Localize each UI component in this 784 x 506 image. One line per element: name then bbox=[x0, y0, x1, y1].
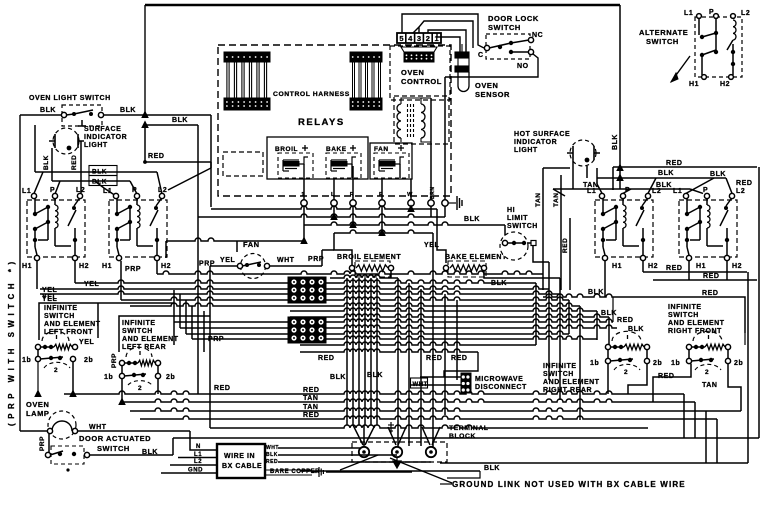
svg-text:BAKE ELEMENT: BAKE ELEMENT bbox=[445, 254, 507, 261]
lamp hot surface indicator bbox=[570, 140, 596, 166]
svg-text:L2: L2 bbox=[652, 188, 661, 195]
svg-text:CONTROL: CONTROL bbox=[401, 77, 442, 86]
svg-text:RED: RED bbox=[666, 160, 682, 167]
wire BX L1 feed bbox=[178, 457, 217, 459]
wire BLK second bbox=[52, 180, 130, 182]
svg-text:PRP: PRP bbox=[39, 436, 46, 451]
svg-text:MICROWAVE: MICROWAVE bbox=[475, 376, 523, 383]
wire relay bus y217 bbox=[198, 214, 445, 217]
wire bundle A verticals bbox=[346, 278, 348, 425]
wire feed from BLK line to L1 bbox=[34, 125, 36, 172]
transformer T1 secondary coil bbox=[421, 104, 425, 138]
wire bus line y428 bbox=[210, 425, 648, 428]
terminal H1 group3 bbox=[602, 255, 607, 260]
svg-text:AND ELEMENT: AND ELEMENT bbox=[122, 336, 179, 343]
wire BLK vertical from lamp bbox=[51, 148, 53, 181]
svg-text:L2: L2 bbox=[736, 188, 745, 195]
box relay sub dashed empty bbox=[223, 152, 263, 176]
wire bare copper continuation bbox=[326, 471, 412, 473]
svg-text:YEL: YEL bbox=[42, 287, 57, 294]
svg-text:TAN: TAN bbox=[553, 192, 560, 207]
svg-text:BLK: BLK bbox=[658, 170, 674, 177]
svg-text:INDICATOR: INDICATOR bbox=[514, 139, 557, 146]
svg-text:L2: L2 bbox=[194, 459, 202, 465]
svg-text:H1: H1 bbox=[612, 263, 622, 270]
svg-text:SWITCH: SWITCH bbox=[646, 37, 679, 46]
wire H2 group1 drop bbox=[74, 261, 76, 283]
svg-text:2b: 2b bbox=[84, 357, 93, 364]
svg-text:2b: 2b bbox=[166, 374, 175, 381]
switch hi limit bbox=[500, 232, 528, 260]
wire bend down x211 bbox=[210, 115, 212, 207]
switch oven selector left 1 bbox=[27, 200, 85, 257]
element infinite right rear bbox=[612, 331, 641, 341]
svg-text:BAKE: BAKE bbox=[326, 146, 347, 153]
box wire in BX cable bbox=[217, 444, 265, 478]
svg-text:BROIL ELEMENT: BROIL ELEMENT bbox=[337, 254, 401, 261]
wire BLK right bbox=[597, 177, 726, 179]
svg-text:DOOR ACTUATED: DOOR ACTUATED bbox=[79, 434, 151, 443]
svg-text:AND ELEMENT: AND ELEMENT bbox=[543, 379, 600, 386]
connector control harness right bbox=[350, 52, 382, 62]
wire H2 group3 to right edge bbox=[642, 261, 644, 272]
svg-text:DOOR LOCK: DOOR LOCK bbox=[488, 14, 539, 23]
svg-text:RED: RED bbox=[303, 387, 319, 394]
wire BLK bottom bbox=[300, 470, 480, 472]
wire bus line 12 bbox=[192, 336, 597, 339]
transformer T1 primary coil bbox=[397, 104, 401, 138]
wire relay drops bbox=[303, 178, 305, 200]
wire diagonals into right switches bbox=[617, 165, 623, 171]
svg-text:LAMP: LAMP bbox=[26, 409, 49, 418]
svg-text:BRN: BRN bbox=[430, 187, 436, 199]
wire lamp to BX N bbox=[190, 431, 217, 450]
wire right front feed bbox=[612, 297, 614, 322]
wire relay bus y225 BLK bbox=[304, 222, 505, 225]
svg-text:2: 2 bbox=[138, 385, 142, 392]
svg-text:INFINITE: INFINITE bbox=[668, 304, 702, 311]
wire bus line 11 PRP bbox=[186, 331, 569, 334]
ground symbol BX bbox=[312, 471, 318, 473]
ground symbol GRD at terminal bbox=[390, 422, 392, 433]
svg-text:TERMINAL: TERMINAL bbox=[449, 425, 489, 432]
svg-text:PRP: PRP bbox=[111, 353, 118, 368]
connector control harness left bbox=[224, 52, 270, 62]
svg-text:H1: H1 bbox=[696, 263, 706, 270]
svg-text:RED: RED bbox=[617, 317, 633, 324]
box infinite left front bbox=[39, 303, 174, 340]
wire PRP drop bbox=[48, 434, 50, 453]
svg-text:1b: 1b bbox=[22, 357, 31, 364]
wires from 5-pin connector bbox=[402, 14, 484, 48]
svg-text:5: 5 bbox=[399, 34, 403, 43]
svg-text:FAN: FAN bbox=[374, 146, 389, 153]
svg-text:BLK: BLK bbox=[367, 372, 383, 379]
svg-text:RED: RED bbox=[71, 155, 78, 170]
wire yel to fan bbox=[210, 265, 237, 267]
wire bake feed YEL bbox=[437, 209, 446, 263]
svg-text:YEL: YEL bbox=[79, 339, 94, 346]
svg-text:H2: H2 bbox=[720, 81, 730, 88]
wire oven lamp bottom bbox=[20, 430, 48, 432]
switch oven selector right 1 bbox=[595, 200, 653, 257]
switch oven selector left 2 bbox=[109, 200, 167, 257]
wire bus line 1 bbox=[330, 275, 398, 278]
wire bundle D verticals bbox=[535, 283, 537, 345]
wire broil element out bbox=[390, 271, 392, 278]
box infinite right front bbox=[617, 297, 745, 333]
pointer arrow alternate switch bbox=[671, 56, 690, 82]
switch oven selector right 2 bbox=[679, 200, 737, 257]
element infinite left rear bbox=[126, 347, 152, 357]
svg-text:FAN: FAN bbox=[243, 240, 260, 249]
wire H1 group2 drop bbox=[120, 261, 122, 300]
wire bundle B verticals bbox=[397, 278, 399, 437]
wire RED vertical right bbox=[569, 218, 571, 290]
svg-text:LEFT REAR: LEFT REAR bbox=[122, 344, 166, 351]
svg-text:TAN: TAN bbox=[303, 404, 319, 411]
wire H1 group3 drop bbox=[604, 261, 606, 297]
svg-text:SWITCH: SWITCH bbox=[488, 23, 521, 32]
svg-text:SWITCH: SWITCH bbox=[44, 313, 75, 320]
svg-text:2: 2 bbox=[624, 369, 628, 376]
wire bundle C verticals bbox=[432, 233, 434, 447]
svg-text:BLK: BLK bbox=[588, 289, 604, 296]
wire wht from fan bbox=[270, 265, 322, 267]
wire J2 leads bbox=[300, 349, 478, 352]
wire microwave leads bbox=[420, 376, 461, 378]
svg-text:DISCONNECT: DISCONNECT bbox=[475, 384, 527, 391]
transformer leads bbox=[401, 98, 431, 142]
svg-text:L1: L1 bbox=[684, 10, 693, 17]
svg-text:P: P bbox=[625, 187, 630, 194]
terminal H1 group1 bbox=[34, 255, 39, 260]
svg-text:BLK: BLK bbox=[612, 134, 619, 150]
wire RED vertical from lamp bbox=[80, 141, 82, 193]
svg-text:PRP: PRP bbox=[308, 256, 324, 263]
wire bus line 10 bbox=[180, 325, 617, 328]
wire left front drops bbox=[37, 350, 39, 357]
relay K3 fan bbox=[370, 143, 412, 179]
wire bundle E verticals bbox=[596, 311, 598, 340]
svg-text:LIGHT: LIGHT bbox=[84, 142, 108, 149]
svg-text:RED: RED bbox=[266, 459, 278, 465]
wire lower diagonals terminal block bbox=[353, 425, 363, 445]
svg-text:WIRE IN: WIRE IN bbox=[224, 453, 255, 460]
wire BLK right of switch bbox=[104, 114, 212, 116]
wire BLK left of switch bbox=[20, 114, 62, 116]
svg-text:RIGHT REAR: RIGHT REAR bbox=[543, 387, 592, 394]
wire hi limit drop bbox=[533, 246, 549, 262]
svg-text:LIMIT: LIMIT bbox=[507, 215, 528, 222]
switch S1 oven light bbox=[62, 105, 102, 126]
wire bus line 5 bbox=[121, 297, 569, 300]
wire BLK riser to y438 line bbox=[172, 438, 174, 455]
svg-text:BLK: BLK bbox=[628, 326, 644, 333]
wire lower verticals to terminal block bbox=[363, 425, 365, 447]
svg-text:3: 3 bbox=[417, 34, 421, 43]
wire right rear drops bbox=[608, 350, 647, 394]
wire right edge vertical 759 bbox=[758, 167, 760, 438]
wire BX L2 feed bbox=[170, 464, 217, 466]
svg-text:RED: RED bbox=[426, 355, 442, 362]
wire BLK y297 right mid bbox=[543, 294, 617, 297]
element infinite left front bbox=[42, 331, 69, 341]
wire left drop from top border bbox=[144, 5, 146, 115]
svg-text:BLK: BLK bbox=[92, 169, 107, 176]
node triangles lower bus bbox=[35, 391, 41, 397]
wire broil feed PRP bbox=[334, 233, 352, 265]
wire hot surface drop bbox=[586, 166, 588, 178]
svg-text:BROIL: BROIL bbox=[275, 146, 298, 153]
svg-text:RED: RED bbox=[214, 385, 230, 392]
wire bus line 3 YEL bbox=[40, 286, 549, 289]
wire right front drops bbox=[689, 350, 728, 358]
svg-text:H2: H2 bbox=[161, 263, 171, 270]
svg-text:H1: H1 bbox=[689, 81, 699, 88]
sensor RTD oven sensor bbox=[458, 72, 469, 92]
wire PRP from H2 group2 bbox=[156, 261, 158, 274]
svg-text:RIGHT FRONT: RIGHT FRONT bbox=[668, 328, 722, 335]
wire H2 group4 to right edge bbox=[726, 261, 728, 280]
transformer core bbox=[407, 104, 409, 138]
wire RED top right bbox=[613, 166, 757, 168]
connector block J2 bbox=[288, 317, 326, 343]
svg-text:2b: 2b bbox=[734, 360, 743, 367]
svg-text:RED: RED bbox=[148, 153, 164, 160]
wire H1 group1 drop bbox=[36, 261, 38, 289]
svg-text:SURFACE: SURFACE bbox=[84, 126, 121, 133]
svg-text:WHT: WHT bbox=[89, 424, 107, 431]
wire WHT from lamp bbox=[78, 430, 191, 432]
wire relay output stubs bbox=[303, 206, 305, 241]
svg-text:L1: L1 bbox=[194, 452, 202, 458]
svg-text:RED: RED bbox=[702, 290, 718, 297]
wire BLK lower run bbox=[145, 124, 198, 126]
svg-text:2b: 2b bbox=[653, 360, 662, 367]
svg-text:2: 2 bbox=[705, 369, 709, 376]
box infinite left rear bbox=[119, 316, 210, 352]
svg-text:RED: RED bbox=[562, 238, 569, 253]
wire lower bus TAN 2 bbox=[130, 408, 741, 411]
terminal H1 group4 bbox=[686, 255, 691, 260]
wire red jumper bracket bbox=[444, 352, 478, 377]
wire relay bus y233 bbox=[334, 230, 433, 233]
connector oven sensor upper bbox=[455, 52, 469, 58]
svg-text:BLK: BLK bbox=[40, 107, 56, 114]
svg-text:2: 2 bbox=[426, 34, 430, 43]
wire bus line 13 BLK bbox=[300, 342, 536, 345]
svg-text:TAN: TAN bbox=[535, 192, 542, 207]
wire ground pointer bbox=[390, 458, 452, 483]
wire H1 group4 drop bbox=[688, 261, 690, 280]
wire bundle F verticals left bbox=[173, 290, 175, 345]
svg-text:RED: RED bbox=[303, 412, 319, 419]
svg-text:RED: RED bbox=[318, 355, 334, 362]
svg-text:INDICATOR: INDICATOR bbox=[84, 134, 127, 141]
svg-text:HOT SURFACE: HOT SURFACE bbox=[514, 131, 570, 138]
svg-text:BLK: BLK bbox=[172, 117, 188, 124]
svg-text:NC: NC bbox=[532, 32, 543, 39]
svg-text:(PRP WITH SWITCH *): (PRP WITH SWITCH *) bbox=[7, 257, 16, 426]
wire lower bus TAN bbox=[122, 399, 695, 402]
wire left rear drops bbox=[121, 366, 123, 374]
svg-text:L1: L1 bbox=[22, 188, 31, 195]
switch door lock bbox=[486, 34, 530, 59]
terminal H2 group4 bbox=[724, 255, 729, 260]
svg-text:LIGHT: LIGHT bbox=[514, 147, 538, 154]
wire lower bus RED 2 bbox=[140, 416, 717, 419]
lamp oven bbox=[48, 411, 76, 439]
wire bottom y463 bbox=[440, 462, 748, 464]
wire relay bus y209 bbox=[211, 206, 437, 209]
wire relay bus y241 bbox=[166, 238, 304, 241]
switch door actuated bbox=[51, 446, 84, 464]
wire door lock to transformer bbox=[445, 54, 538, 77]
svg-text:INFINITE: INFINITE bbox=[122, 320, 156, 327]
svg-text:AND ELEMENT: AND ELEMENT bbox=[668, 320, 725, 327]
svg-text:SWITCH: SWITCH bbox=[97, 444, 130, 453]
svg-text:RED: RED bbox=[451, 355, 467, 362]
svg-text:ALTERNATE: ALTERNATE bbox=[639, 28, 688, 37]
svg-text:1b: 1b bbox=[671, 360, 680, 367]
svg-text:H2: H2 bbox=[648, 263, 658, 270]
wire BLK to switch group bbox=[35, 171, 157, 173]
node junction at x145 y115 bbox=[142, 112, 148, 118]
svg-text:SWITCH: SWITCH bbox=[122, 328, 153, 335]
wire bend down x198 bbox=[197, 125, 199, 217]
svg-text:BLK: BLK bbox=[484, 465, 500, 472]
wire transformer drops bbox=[430, 98, 432, 200]
terminals relay outputs bbox=[301, 200, 307, 206]
svg-text:INFINITE: INFINITE bbox=[44, 305, 78, 312]
wire H2 group1 to bus bbox=[75, 280, 330, 283]
connector oven sensor lower bbox=[455, 66, 469, 72]
wire diagonals into left switches bbox=[157, 172, 162, 194]
ground arrow terminal bbox=[393, 458, 401, 469]
relay broil bake container bbox=[267, 137, 368, 179]
wire BLK TAN right bbox=[553, 188, 690, 190]
connector microwave disconnect bbox=[461, 373, 471, 393]
wire bus line 4 YEL bbox=[40, 291, 560, 294]
svg-text:YEL: YEL bbox=[42, 296, 57, 303]
wire bus line 6 PRP bbox=[130, 303, 580, 306]
svg-text:OVEN: OVEN bbox=[401, 68, 424, 77]
wire top border bbox=[145, 4, 620, 6]
svg-text:GND: GND bbox=[188, 468, 203, 474]
svg-text:OVEN: OVEN bbox=[475, 81, 498, 90]
svg-text:LEFT FRONT: LEFT FRONT bbox=[44, 329, 93, 336]
svg-text:OVEN: OVEN bbox=[26, 400, 49, 409]
wire right drop from top border (BLK) bbox=[619, 5, 621, 189]
wire bake element out BLK bbox=[484, 271, 560, 278]
element bake bbox=[448, 261, 486, 277]
svg-text:H1: H1 bbox=[102, 263, 112, 270]
svg-text:INFINITE: INFINITE bbox=[543, 363, 577, 370]
svg-text:2: 2 bbox=[54, 367, 58, 374]
wire left border bbox=[19, 115, 21, 431]
box oven control dashed bbox=[390, 46, 450, 100]
wire bus line 8 bbox=[290, 314, 609, 317]
svg-text:CONTROL HARNESS: CONTROL HARNESS bbox=[273, 91, 350, 98]
svg-text:BLK: BLK bbox=[710, 171, 726, 178]
svg-text:AND ELEMENT: AND ELEMENT bbox=[44, 321, 101, 328]
wire bus line 7 bbox=[290, 308, 597, 311]
terminal H2 group2 bbox=[154, 255, 159, 260]
wire bus line 9 bbox=[174, 319, 613, 322]
svg-text:1b: 1b bbox=[104, 374, 113, 381]
svg-text:WHT: WHT bbox=[266, 445, 279, 451]
wire yel fan feed bbox=[236, 241, 238, 252]
svg-text:H1: H1 bbox=[22, 263, 32, 270]
svg-text:OVEN LIGHT SWITCH: OVEN LIGHT SWITCH bbox=[29, 95, 111, 102]
svg-text:BLK: BLK bbox=[120, 107, 136, 114]
svg-text:YEL: YEL bbox=[220, 257, 235, 264]
terminal block TB1 bbox=[352, 442, 447, 462]
connector block J1 bbox=[288, 277, 326, 303]
svg-text:GROUND LINK NOT USED WITH BX C: GROUND LINK NOT USED WITH BX CABLE WIRE bbox=[452, 480, 686, 489]
svg-text:L1: L1 bbox=[103, 188, 112, 195]
svg-text:BX CABLE: BX CABLE bbox=[222, 463, 262, 470]
svg-text:RED: RED bbox=[666, 265, 682, 272]
svg-text:W: W bbox=[407, 192, 413, 198]
label WHT boxed bbox=[411, 378, 428, 388]
svg-text:SWITCH: SWITCH bbox=[668, 312, 699, 319]
wire BX gnd feed bbox=[161, 472, 217, 474]
box transformer dashed bbox=[394, 96, 449, 144]
svg-text:SWITCH: SWITCH bbox=[507, 223, 538, 230]
wire bus line 2 bbox=[330, 280, 536, 283]
switch alternate bbox=[695, 17, 742, 77]
svg-text:L1: L1 bbox=[673, 188, 682, 195]
svg-text:L2: L2 bbox=[741, 10, 750, 17]
svg-text:RED: RED bbox=[736, 180, 752, 187]
svg-text:WHT: WHT bbox=[413, 382, 428, 388]
svg-text:H2: H2 bbox=[79, 263, 89, 270]
wire door switch BLK to right bbox=[90, 454, 174, 456]
svg-text:L1: L1 bbox=[587, 188, 596, 195]
svg-text:BLK: BLK bbox=[601, 310, 617, 317]
svg-text:BLOCK: BLOCK bbox=[449, 433, 476, 440]
svg-text:SENSOR: SENSOR bbox=[475, 90, 510, 99]
svg-text:RED: RED bbox=[703, 273, 719, 280]
svg-text:C: C bbox=[478, 52, 484, 59]
terminal H2 group3 bbox=[640, 255, 645, 260]
wire lower bus RED bbox=[64, 391, 684, 394]
wire right edge vertical 748 bbox=[747, 272, 749, 463]
svg-text:NO: NO bbox=[517, 63, 529, 70]
relay K2 bake bbox=[326, 153, 361, 178]
motor fan bbox=[241, 254, 266, 279]
relay K1 broil bbox=[278, 153, 313, 178]
terminal H2 group1 bbox=[72, 255, 77, 260]
wire hi limit feed drop bbox=[504, 225, 506, 240]
terminal H1 group2 bbox=[116, 255, 121, 260]
wire TAN verticals bbox=[542, 168, 544, 290]
svg-text:SWITCH: SWITCH bbox=[543, 371, 574, 378]
svg-text:N: N bbox=[196, 444, 201, 450]
connector oven control bbox=[404, 52, 434, 62]
wire bottom y438 bbox=[173, 437, 759, 439]
svg-text:BLK: BLK bbox=[330, 374, 346, 381]
wire staircase right lower bbox=[683, 394, 685, 438]
svg-text:1b: 1b bbox=[590, 360, 599, 367]
svg-text:TAN: TAN bbox=[702, 382, 718, 389]
svg-text:BLK: BLK bbox=[266, 452, 278, 458]
connector 5-pin oven control bbox=[397, 33, 441, 43]
svg-text:BLK: BLK bbox=[43, 155, 50, 170]
svg-text:WHT: WHT bbox=[277, 257, 295, 264]
